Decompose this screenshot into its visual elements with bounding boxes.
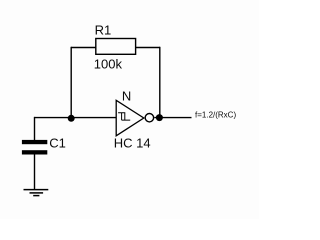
- svg-text:HC 14: HC 14: [114, 135, 151, 150]
- U1 inverting bubble: [145, 114, 153, 122]
- wire: resistor right lead: [136, 47, 160, 49]
- wire: left vertical feedback: [70, 47, 72, 118]
- svg-text:N: N: [122, 89, 131, 104]
- capacitor C1 top plate: [22, 140, 47, 144]
- svg-text:C1: C1: [49, 136, 66, 151]
- svg-text:R1: R1: [95, 23, 112, 38]
- op-amp U1: Schmitt inverter triangle: [116, 100, 144, 136]
- wire: input net horizontal: [34, 117, 116, 119]
- wire: capacitor top lead: [34, 117, 36, 140]
- svg-text:f=1.2/(RxC): f=1.2/(RxC): [195, 110, 236, 119]
- ground: [24, 190, 49, 196]
- wire: right vertical feedback: [159, 47, 161, 118]
- wire: capacitor bottom lead: [34, 154, 36, 189]
- node: junction dot input: [68, 115, 75, 122]
- wire: resistor left lead: [71, 47, 96, 49]
- U1 hysteresis symbol: [118, 113, 130, 120]
- resistor R1 body: [96, 39, 136, 55]
- node: junction dot output: [156, 114, 163, 121]
- wire: output lead: [154, 117, 191, 119]
- capacitor C1 bottom plate: [22, 150, 47, 154]
- svg-text:100k: 100k: [94, 56, 123, 71]
